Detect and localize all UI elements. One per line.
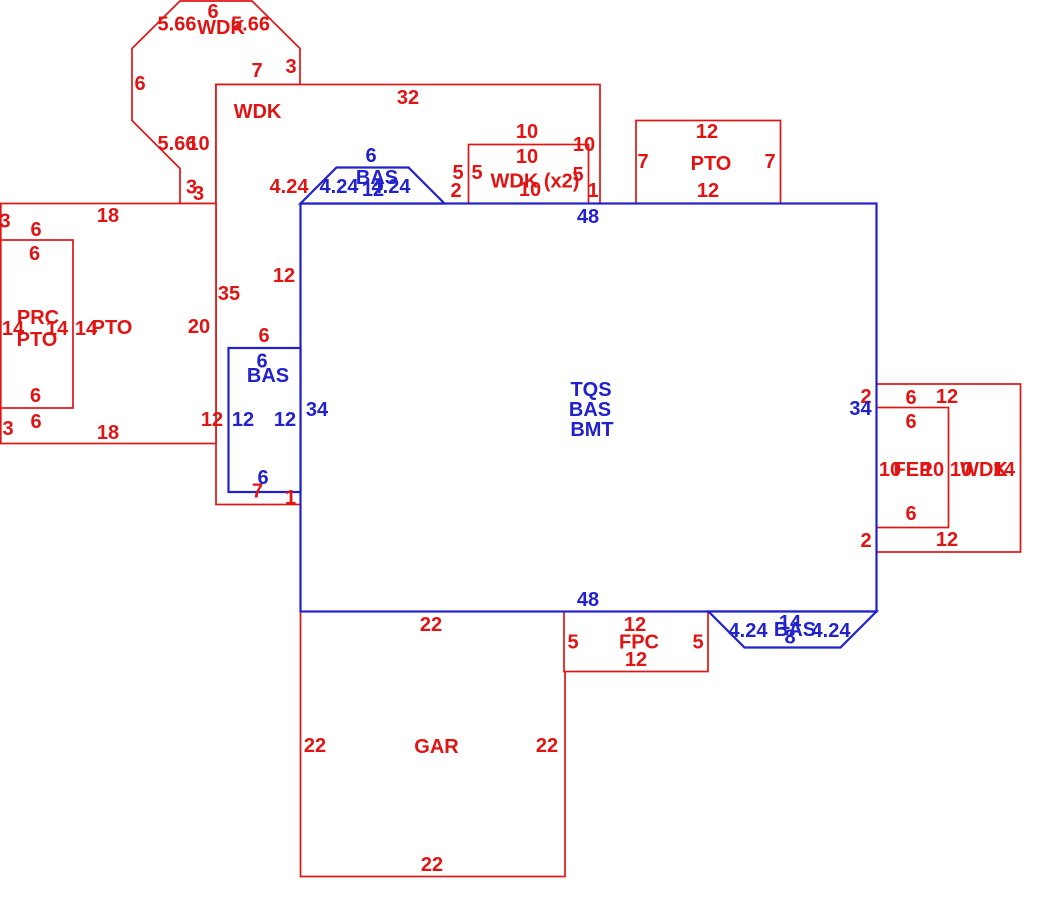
svg-text:12: 12 [936, 386, 958, 408]
svg-text:1: 1 [285, 487, 296, 509]
svg-text:6: 6 [30, 411, 41, 433]
patio PTO outer rect (left) [1, 204, 216, 444]
porch FEP rect (right) [877, 408, 949, 528]
octagon deck WDK (top-left) [132, 1, 300, 204]
svg-text:7: 7 [251, 60, 262, 82]
svg-text:4.24: 4.24 [812, 620, 852, 642]
svg-text:18: 18 [97, 205, 119, 227]
svg-text:18: 18 [97, 422, 119, 444]
svg-text:BAS: BAS [247, 365, 289, 387]
svg-text:2: 2 [860, 530, 871, 552]
svg-text:PTO: PTO [691, 153, 732, 175]
svg-text:PTO: PTO [92, 317, 133, 339]
svg-text:2: 2 [450, 180, 461, 202]
svg-text:34: 34 [306, 399, 329, 421]
svg-text:1: 1 [587, 180, 598, 202]
svg-text:6: 6 [134, 73, 145, 95]
wood deck WDK rect (right) [877, 384, 1021, 552]
porch PRC/PTO inner rect (left) [1, 240, 73, 408]
svg-text:10: 10 [516, 146, 538, 168]
svg-text:7: 7 [637, 151, 648, 173]
svg-text:6: 6 [905, 503, 916, 525]
svg-text:5: 5 [471, 162, 482, 184]
svg-text:4.24: 4.24 [270, 176, 310, 198]
svg-text:5.66: 5.66 [231, 14, 270, 36]
svg-text:4.24: 4.24 [372, 176, 412, 198]
svg-text:12: 12 [936, 529, 958, 551]
svg-text:5.66: 5.66 [158, 14, 197, 36]
svg-text:22: 22 [420, 614, 442, 636]
main house TQS/BAS/BMT rect [301, 204, 877, 612]
porch FPC rect [564, 612, 708, 672]
svg-text:10: 10 [516, 121, 538, 143]
svg-text:4.24: 4.24 [729, 620, 769, 642]
patio PTO rect (top-right) [636, 121, 781, 204]
basement BAS trapezoid (bottom) [709, 612, 877, 648]
svg-text:6: 6 [30, 385, 41, 407]
svg-text:5: 5 [692, 632, 703, 654]
svg-text:6: 6 [257, 467, 268, 489]
svg-text:6: 6 [258, 325, 269, 347]
svg-text:8: 8 [784, 627, 795, 649]
svg-text:20: 20 [188, 316, 210, 338]
svg-text:WDK: WDK [234, 101, 282, 123]
svg-text:7: 7 [764, 151, 775, 173]
svg-text:10: 10 [573, 134, 595, 156]
svg-text:3: 3 [285, 56, 296, 78]
svg-text:PTO: PTO [17, 329, 58, 351]
svg-text:BMT: BMT [570, 419, 613, 441]
svg-text:12: 12 [696, 121, 718, 143]
svg-text:BAS: BAS [569, 399, 611, 421]
svg-text:6: 6 [29, 243, 40, 265]
large deck WDK rect [216, 85, 600, 505]
basement BAS small rect (left) [229, 348, 301, 492]
svg-text:3: 3 [0, 211, 11, 233]
svg-text:32: 32 [397, 87, 419, 109]
svg-text:3: 3 [193, 183, 204, 205]
svg-text:12: 12 [274, 409, 296, 431]
svg-text:6: 6 [905, 387, 916, 409]
svg-text:14: 14 [993, 459, 1016, 481]
svg-text:48: 48 [577, 206, 599, 228]
svg-text:6: 6 [30, 219, 41, 241]
svg-text:12: 12 [273, 265, 295, 287]
svg-text:10: 10 [187, 133, 209, 155]
svg-text:34: 34 [849, 398, 872, 420]
svg-text:TQS: TQS [570, 379, 611, 401]
svg-text:3: 3 [2, 418, 13, 440]
svg-text:12: 12 [201, 409, 223, 431]
svg-text:12: 12 [697, 180, 719, 202]
svg-text:12: 12 [625, 649, 647, 671]
svg-text:GAR: GAR [414, 736, 459, 758]
svg-text:5: 5 [567, 632, 578, 654]
svg-text:35: 35 [218, 283, 240, 305]
svg-text:6: 6 [365, 145, 376, 167]
svg-text:48: 48 [577, 589, 599, 611]
svg-text:22: 22 [304, 735, 326, 757]
svg-text:22: 22 [536, 735, 558, 757]
svg-text:4.24: 4.24 [320, 176, 360, 198]
svg-text:12: 12 [232, 409, 254, 431]
svg-text:6: 6 [905, 411, 916, 433]
garage GAR rect [301, 612, 566, 877]
svg-text:WDK (x2): WDK (x2) [491, 171, 580, 193]
upper deck WDK (x2) rect [469, 145, 589, 204]
basement BAS trapezoid (top) [301, 168, 445, 204]
svg-text:22: 22 [421, 854, 443, 876]
svg-text:10: 10 [922, 459, 944, 481]
